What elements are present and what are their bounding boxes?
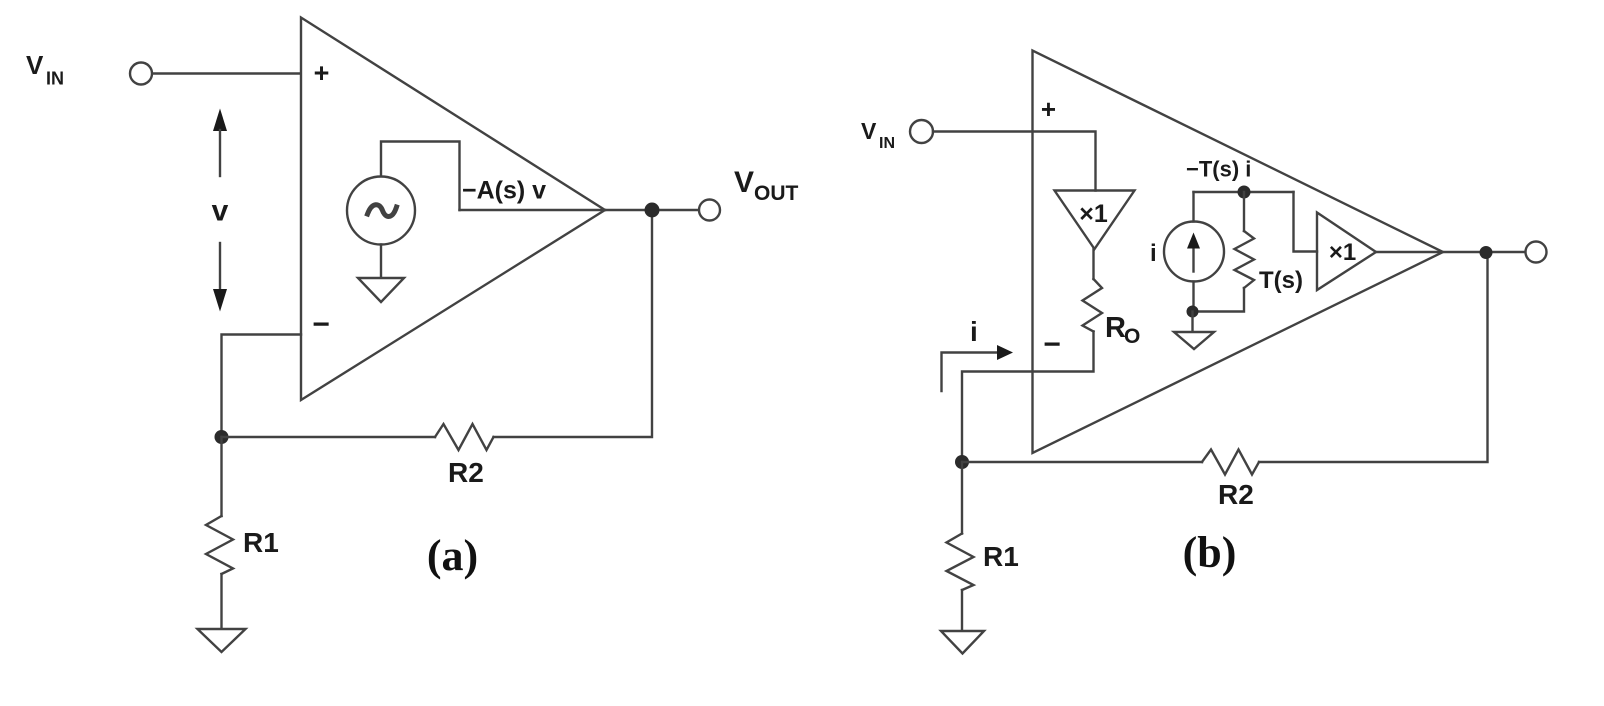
output terminal circle VOUT	[699, 200, 720, 221]
wire R1 to ground	[220, 574, 222, 629]
caption (b)	[1183, 528, 1237, 577]
node label -T(s) i	[1186, 157, 1251, 182]
wire current source bottom	[1192, 282, 1194, 312]
buffer A2 x1 (output, pointing right)	[1317, 213, 1376, 291]
node junction output (b)	[1480, 246, 1493, 259]
buffer A1 x1 (input, pointing down)	[1055, 191, 1135, 250]
wire node to ground (b internal)	[1191, 312, 1193, 333]
wire current source to top node	[1192, 192, 1194, 222]
value label x1 (output buffer)	[1329, 239, 1356, 266]
node VIN label (b)	[861, 118, 895, 152]
wire sine source to ground	[380, 245, 382, 279]
wire VIN to op-amp + input	[153, 72, 302, 74]
svg-text:V: V	[26, 50, 44, 80]
wire R2 to output branch	[494, 210, 653, 437]
svg-text:O: O	[1124, 325, 1140, 348]
input terminal circle VIN (a)	[130, 63, 152, 85]
node junction B (feedback node b)	[955, 455, 969, 469]
value label R2 (a)	[448, 457, 484, 488]
svg-text:R: R	[1105, 312, 1126, 344]
svg-text:R2: R2	[448, 457, 484, 488]
wire op-amp output	[605, 209, 699, 211]
wire feedback node to R2 (b)	[962, 461, 1202, 463]
wire R1 to ground (b)	[961, 590, 963, 631]
wire Ro to - node and down to feedback node (b)	[962, 332, 1094, 463]
node VIN label (a)	[26, 50, 64, 89]
source IS current (controlled source i)	[1164, 222, 1224, 282]
pin label + (b)	[1041, 94, 1056, 124]
wire feedback node to R1	[220, 437, 222, 516]
caption (a)	[427, 531, 478, 580]
svg-text:(a): (a)	[427, 531, 478, 580]
input terminal circle VIN (b)	[910, 120, 933, 143]
svg-text:−: −	[312, 308, 330, 341]
wire top node to output buffer	[1294, 192, 1318, 252]
pin label + (a)	[314, 58, 330, 88]
node junction source ground	[1187, 306, 1199, 318]
pin label - (b)	[1043, 328, 1061, 361]
wire dependent source to output line	[381, 142, 460, 211]
node VOUT label	[734, 166, 799, 205]
svg-text:−A(s) v: −A(s) v	[462, 177, 546, 205]
resistor RO	[1083, 279, 1103, 332]
svg-text:+: +	[314, 58, 330, 88]
svg-text:(b): (b)	[1183, 528, 1237, 577]
node label v	[212, 195, 229, 228]
value label x1 (input buffer)	[1079, 200, 1108, 228]
value label R1 (b)	[983, 541, 1019, 572]
wire feedback node to R2	[222, 436, 436, 438]
resistor R2 (b)	[1202, 450, 1259, 475]
svg-text:+: +	[1041, 94, 1056, 124]
svg-text:R1: R1	[243, 527, 279, 558]
wire buffer to Ro	[1092, 249, 1094, 279]
ground (internal, under sine source)	[358, 278, 404, 302]
output terminal circle (b)	[1526, 242, 1547, 263]
wire feedback node to R1 (b)	[961, 462, 963, 534]
annotation arrow v (double-headed)	[213, 109, 227, 312]
svg-text:OUT: OUT	[754, 182, 799, 205]
svg-text:IN: IN	[46, 69, 64, 89]
svg-text:i: i	[970, 316, 978, 347]
svg-text:V: V	[734, 166, 754, 199]
value label i (current source)	[1150, 240, 1157, 267]
op-amp U1 triangle (a)	[301, 18, 605, 401]
op-amp U2 triangle (b)	[1033, 51, 1444, 454]
ground (below R1 a)	[198, 629, 246, 652]
svg-text:×1: ×1	[1079, 200, 1108, 228]
svg-text:R2: R2	[1218, 479, 1254, 510]
resistor R1 (b)	[947, 534, 974, 591]
wire VIN to x1 input buffer	[933, 132, 1096, 191]
svg-text:T(s): T(s)	[1259, 267, 1303, 294]
node junction A (feedback node a)	[215, 430, 229, 444]
resistor R2 (a)	[435, 424, 494, 450]
node junction -T(s)i	[1238, 186, 1251, 199]
node junction output (a)	[645, 203, 660, 218]
wire R2 to output branch (b)	[1259, 253, 1488, 463]
ground (internal, under current source)	[1174, 332, 1214, 349]
svg-text:v: v	[212, 195, 229, 228]
resistor T(s)	[1235, 231, 1255, 288]
value label RO	[1105, 312, 1140, 348]
svg-text:V: V	[861, 118, 877, 144]
wire internal output line to apex	[460, 209, 606, 211]
value label -A(s) v	[462, 177, 546, 205]
value label R2 (b)	[1218, 479, 1254, 510]
wire T(s) bottom to ground node	[1193, 288, 1245, 312]
svg-text:×1: ×1	[1329, 239, 1356, 266]
svg-text:i: i	[1150, 240, 1157, 267]
resistor R1 (a)	[206, 516, 233, 574]
ground (below R1 b)	[941, 631, 984, 654]
annotation label i	[970, 316, 978, 347]
wire op-amp output (b)	[1376, 251, 1526, 253]
wire - input to feedback node	[222, 335, 302, 438]
svg-text:−: −	[1043, 328, 1061, 361]
svg-text:IN: IN	[879, 135, 895, 152]
source VS sine (controlled source -A(s)v)	[347, 177, 415, 245]
svg-text:R1: R1	[983, 541, 1019, 572]
wire top node to T(s)	[1243, 192, 1245, 231]
wire top node rail	[1194, 191, 1294, 193]
value label R1 (a)	[243, 527, 279, 558]
annotation arrow i (current into - input)	[942, 345, 1014, 391]
svg-text:−T(s) i: −T(s) i	[1186, 157, 1251, 182]
value label T(s)	[1259, 267, 1303, 294]
pin label - (a)	[312, 308, 330, 341]
